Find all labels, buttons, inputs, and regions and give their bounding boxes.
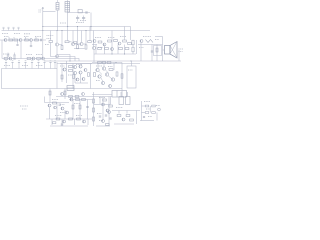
resistor R54 (145, 105, 149, 107)
transistor Q5 (71, 42, 74, 45)
transistor Q8 (103, 43, 106, 46)
wire row1 stub2 (13, 37, 15, 40)
wire out top (155, 36, 163, 38)
label row1 labels (4, 36, 9, 38)
wire bm wire0 (92, 94, 112, 96)
wire nest3 (46, 59, 79, 62)
capacitor C4 (30, 46, 32, 47)
transistor Q9 (118, 42, 121, 45)
wire br wire1 (142, 105, 146, 107)
wire left edge drop (1, 40, 3, 59)
resistor R27b (88, 73, 90, 77)
wire row1 stub1 (8, 37, 10, 40)
capacitor C2 (76, 16, 79, 22)
label rl labels2 (108, 66, 113, 68)
label rl labels (96, 65, 102, 67)
wire out v4 (162, 37, 164, 62)
label row2 labels (47, 35, 54, 37)
wire row2 link2c (74, 48, 85, 50)
resistor R1 (9, 39, 13, 41)
resistor R44 (69, 118, 73, 120)
resistor R33 (121, 74, 123, 78)
wire lm v8 (61, 119, 63, 126)
resistor R5 (61, 45, 63, 49)
transistor Q12 (9, 57, 12, 60)
resistor R23 (37, 58, 41, 60)
resistor R35 (75, 96, 79, 98)
wire cl v3 (72, 64, 74, 89)
capacitor C3 (40, 39, 41, 41)
resistor R29 (107, 62, 111, 64)
capacitor CB4 (18, 27, 20, 30)
wire C4b stub (17, 40, 19, 44)
resistor R21 (4, 58, 8, 60)
wire lm wire5 (50, 125, 88, 127)
label left labels2 (14, 33, 20, 35)
wire out wire (138, 44, 163, 46)
wire rect right drop (90, 13, 92, 31)
resistor R8 (85, 45, 87, 49)
transistor Q11 (140, 40, 143, 43)
wire cl v2 (66, 61, 68, 83)
resistor R57 (152, 112, 156, 114)
node J2-vcc (67, 26, 68, 27)
resistor R9 (98, 41, 102, 43)
resistor R7b (74, 42, 77, 44)
wire row2 link3 (83, 43, 86, 45)
wire rowM v12 (132, 52, 134, 54)
label input label2 (39, 11, 41, 13)
transistor Q7 (56, 55, 59, 58)
capacitor C8 (59, 104, 62, 105)
wire bm v6 (108, 97, 110, 127)
label lm labels4 (55, 115, 62, 117)
transistor Q37 (158, 108, 161, 111)
wire row2 v8 (89, 27, 91, 41)
label row2 labels2 (47, 38, 52, 40)
node row2 j3 (85, 30, 86, 31)
resistor R38 (53, 102, 57, 104)
label row3 labels (3, 53, 10, 55)
transistor Q18 (73, 71, 76, 74)
wire J4 stub1 (120, 92, 122, 97)
label module labels3 (36, 65, 43, 67)
resistor R26 (69, 70, 73, 72)
wire rl v mid (103, 64, 105, 67)
wire lm v1 (49, 107, 51, 119)
wire row2 v5 (77, 27, 79, 45)
label C2 label2 (76, 22, 84, 24)
resistor R22 (27, 58, 31, 60)
transistor Q30 (66, 111, 69, 114)
label bm labels2 (116, 107, 123, 109)
label out labels2 (139, 47, 144, 49)
transistor Q32 (63, 120, 66, 123)
label rowM labels2 (108, 37, 115, 39)
wire rowM v10 (124, 45, 126, 55)
resistor R13 (128, 43, 132, 45)
transistor Q24 (105, 73, 108, 76)
wire row2 v2 (56, 31, 58, 43)
resistor R16 (105, 48, 109, 50)
label speaker label2 (179, 51, 183, 53)
label cl labels (60, 65, 65, 67)
node row2 j1 (61, 30, 62, 31)
wire Q2 drop (20, 42, 22, 59)
transistor Q6 (80, 42, 83, 45)
label cl labels3 (68, 74, 72, 76)
label row2 labels3 (45, 44, 49, 46)
capacitor CB3 (13, 27, 15, 30)
resistor R5a (49, 41, 52, 43)
label C2 label (80, 20, 86, 22)
resistor R27 (73, 75, 75, 79)
node input-gnd junction (42, 30, 43, 31)
wire rl wire top (92, 62, 122, 64)
resistor R25 (69, 66, 73, 68)
wire rowM left drop (93, 50, 95, 62)
wire lm v9 (74, 119, 76, 125)
capacitor C16 (109, 118, 111, 119)
transistor Q13 (32, 57, 35, 60)
resistor R45 (77, 118, 81, 120)
transistor Q16 (73, 65, 76, 68)
capacitor C12 (143, 116, 145, 117)
wire lm v2 (56, 103, 58, 120)
pin stub P5 (31, 61, 33, 69)
resistor R56 (145, 112, 149, 114)
wire bm wire3 (96, 125, 110, 127)
resistor R47 (93, 108, 95, 112)
transistor Q22 (102, 67, 105, 70)
transistor Q4 (55, 43, 58, 46)
wire lm v10 (87, 119, 89, 125)
wire row2 v2b (61, 31, 63, 46)
label input label (39, 9, 42, 11)
resistor R24 (61, 75, 63, 79)
resistor R42 (79, 105, 81, 109)
pin stub P2 (11, 61, 13, 69)
transistor Q33 (83, 120, 86, 123)
wire speaker return (178, 50, 180, 61)
speaker SP1 (165, 42, 178, 59)
transistor Q10c (93, 40, 96, 43)
wire bm v2 (110, 97, 112, 105)
wire mid v drop (97, 64, 99, 69)
label module labels (4, 65, 10, 67)
diode D3 (102, 62, 105, 64)
wire row2 link1 (59, 44, 62, 46)
wire J2 drop (66, 12, 68, 27)
label rowM labels (95, 37, 101, 39)
wire bm v4 (126, 111, 128, 114)
transistor Q31 (70, 98, 73, 101)
node rowM j1 (111, 53, 112, 54)
label rowM labels3 (120, 36, 126, 38)
label row3 labels3 (36, 54, 42, 56)
resistor R11 (114, 40, 118, 42)
resistor R49 (103, 99, 107, 101)
transistor Q23 (98, 75, 101, 78)
pin stub P4 (24, 61, 26, 69)
transistor Q19 (79, 71, 82, 74)
resistor R40 (82, 99, 86, 101)
wire cl h1 (75, 82, 88, 84)
label br labels4 (156, 105, 160, 107)
wire lm v0 (49, 89, 51, 103)
wire cl v1 (61, 64, 63, 83)
node bus junction1 (69, 60, 70, 61)
wire bm wire (112, 110, 140, 112)
wire Q3 drop (30, 42, 32, 45)
resistor R2 (14, 39, 18, 41)
wire top wire right (67, 12, 90, 14)
wire bm ladder (93, 92, 95, 126)
wire row2 link2 (69, 41, 72, 43)
transistor Q28 (48, 104, 51, 107)
wire br v mid (149, 106, 151, 113)
transistor Q14 (42, 57, 45, 60)
resistor R20 (156, 48, 158, 52)
node rect-gnd (90, 26, 91, 27)
wire out v1 (140, 43, 142, 61)
pin stub P9 (54, 61, 56, 69)
transistor Q25b (101, 81, 104, 84)
transistor Q36c (108, 111, 111, 114)
wire nest2 (51, 47, 76, 61)
node rl j1 (115, 62, 116, 63)
resistor R36 (49, 91, 51, 95)
resistor R19a (132, 40, 134, 45)
transistor Q34 (102, 103, 105, 106)
wire rl v right (121, 63, 123, 91)
wire row1 stub3 (25, 37, 27, 40)
transistor Q3 (30, 39, 33, 42)
transistor Q35 (106, 109, 109, 112)
resistor R53b (106, 124, 110, 126)
module U2 outline (127, 66, 136, 88)
wire rowM v14 (111, 31, 113, 45)
label speaker label (179, 48, 184, 50)
transistor Q36b (102, 120, 105, 123)
wire row3 wire (2, 58, 46, 60)
label lm labels6 (60, 112, 65, 114)
node input arrow (42, 7, 44, 9)
resistor R19b (132, 47, 134, 52)
wire lm v7 (51, 119, 53, 125)
resistor R28 (98, 62, 102, 64)
wire rowM v9 (117, 45, 119, 55)
resistor R50 (109, 105, 113, 107)
wire rowM v11 (132, 45, 134, 47)
module U1 outline (2, 62, 123, 89)
label rowM labels4 (98, 47, 103, 49)
label out labels (143, 36, 151, 38)
wire out v3 (156, 45, 158, 62)
wire row2 v0b (50, 43, 52, 48)
wire cl v4 (74, 75, 76, 83)
label bm labels3 (97, 113, 102, 115)
pin stub P7 (43, 61, 45, 69)
wire row2 v6 (81, 31, 83, 43)
wire lm v3 (64, 110, 66, 119)
transistor Q29b (54, 106, 57, 109)
wire main bus (44, 60, 181, 62)
module T1 outline (154, 46, 162, 56)
label corner marks (20, 105, 28, 107)
transistor Q19d (82, 78, 85, 81)
label bm labels (99, 97, 105, 99)
resistor R34 (69, 96, 73, 98)
label br labels2 (146, 108, 150, 110)
wire J4 stub2 (127, 92, 129, 97)
label U2 label (128, 69, 133, 71)
resistor R37 (64, 91, 66, 95)
label br labels3 (148, 116, 152, 118)
wire br bottom (140, 120, 154, 122)
capacitor CB1 (3, 27, 5, 30)
capacitor C5 (151, 51, 153, 52)
resistor R4 (35, 39, 39, 41)
resistor R43 (56, 118, 60, 120)
transistor Q2 (19, 39, 22, 42)
wire lm wire4 (46, 118, 92, 120)
transistor Q21 (96, 68, 99, 71)
wire GND bus (2, 30, 151, 32)
label left labels3 (24, 33, 30, 35)
resistor R53 (130, 119, 134, 121)
wire bm v3 (118, 111, 120, 114)
label module labels2 (22, 65, 28, 67)
pin stub P8 (49, 61, 51, 69)
resistor R18 (125, 48, 129, 50)
wire rowM v6 (95, 45, 97, 55)
transistor Q10b (92, 46, 95, 49)
label out labels3 (155, 39, 159, 41)
wire row1 wire (0, 39, 46, 41)
transistor Q1 (4, 39, 7, 42)
capacitor C4b (16, 44, 18, 45)
capacitor C10 (61, 124, 63, 125)
wire lm v5 (79, 100, 81, 120)
label cl labels2 (76, 64, 82, 66)
transistor Q19c (76, 78, 79, 81)
transistor Q27 (82, 93, 85, 96)
wire row2 link2b (75, 43, 81, 45)
wire row1 right drop (42, 40, 44, 59)
transistor Q26 (61, 93, 64, 96)
transistor Q25c (109, 85, 112, 88)
wire out v2 (151, 45, 153, 62)
wire rowM v13 (136, 40, 138, 54)
wire lm wire2 (45, 102, 70, 104)
wire row2 v0 (50, 31, 52, 41)
fuse F1 (67, 86, 74, 91)
capacitor CB2 (8, 27, 10, 30)
capacitor C6 (14, 57, 15, 59)
wire cl v5 (80, 74, 82, 83)
resistor R17 (119, 48, 123, 50)
wire input top vertical (42, 8, 44, 40)
resistor R32 (116, 72, 118, 76)
wire top feed (43, 11, 56, 13)
wire cl v6 (90, 64, 92, 89)
diode D1 (78, 10, 82, 13)
resistor R15 (98, 48, 102, 50)
label row1 labels3 (35, 36, 41, 38)
node bus junction2 (130, 60, 131, 61)
label br labels (144, 101, 150, 103)
capacitor C15 (99, 116, 101, 117)
wire bm v5 (102, 97, 104, 120)
transistor Q29 (61, 107, 64, 110)
wire bus corner (130, 27, 132, 41)
transistor Q17 (79, 65, 82, 68)
capacitor C7 (7, 53, 9, 57)
wire row2 v3 (67, 27, 69, 41)
wire rowM lower wire (94, 53, 136, 55)
resistor R52 (126, 115, 130, 117)
wire br v right (156, 113, 158, 121)
resistor R7 (77, 45, 79, 49)
pin stub P3 (18, 61, 20, 69)
capacitor C7b (13, 53, 15, 57)
resistor R51 (117, 115, 121, 117)
node rowM j2 (124, 53, 125, 54)
label bus label (60, 22, 66, 24)
resistor R48 (93, 117, 95, 121)
wire lm v00 (44, 97, 46, 103)
resistor R30 (94, 73, 96, 77)
wire lm v0b (64, 89, 66, 100)
label row3 labels2 (26, 54, 32, 56)
wire bm h1 (94, 104, 110, 106)
wire rl v mid2 (113, 63, 115, 71)
pin stub P6 (37, 61, 39, 69)
wire row2 v7 (85, 31, 87, 45)
wire lm wire1 (56, 96, 112, 98)
connector J1 (56, 0, 59, 10)
label left labels (2, 33, 8, 35)
diode D2 (146, 40, 154, 43)
label lm labels3 (60, 104, 65, 106)
wire br wire2 (142, 112, 146, 114)
wire rl diag (99, 70, 112, 82)
wire nest1 (57, 46, 70, 61)
wire br v left (141, 101, 143, 121)
resistor R46 (93, 99, 95, 103)
wire row1 stub4 (35, 37, 37, 40)
wire rowM v7 (104, 45, 106, 55)
wire rowM v15 (124, 27, 126, 41)
pin stub P1 (5, 61, 7, 69)
label corner marks2 (22, 108, 27, 110)
transistor Q10 (111, 48, 114, 51)
wire U2 feed (131, 61, 133, 66)
connector J3 (112, 91, 127, 98)
transistor Q36 (122, 118, 125, 121)
label rl labels3 (96, 80, 100, 82)
capacitor C14 (126, 97, 131, 105)
connector J2 (65, 0, 70, 12)
resistor R31 (109, 69, 113, 71)
wire rowM wire (92, 44, 97, 46)
label bm labels4 (99, 120, 103, 122)
capacitor C1 (86, 11, 87, 13)
resistor R41 (72, 105, 74, 109)
wire cl wire top (57, 63, 92, 65)
wire speaker feed (163, 49, 165, 51)
